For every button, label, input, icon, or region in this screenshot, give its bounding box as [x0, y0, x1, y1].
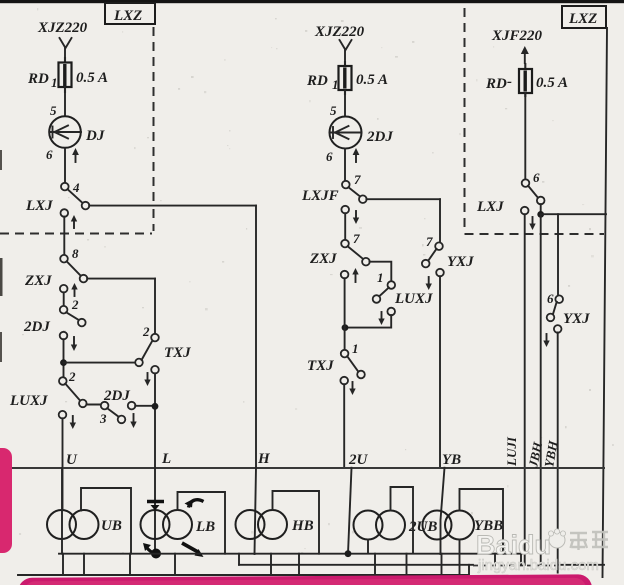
contact TXJ pin 2	[135, 359, 143, 367]
arrow up	[73, 219, 75, 228]
wire 2U column lower	[348, 468, 352, 554]
wire H column lower	[255, 468, 257, 554]
wire LXJF blade to YB branch	[366, 198, 440, 200]
svg-text:LUJI: LUJI	[504, 436, 519, 467]
svg-text:6: 6	[533, 170, 540, 185]
wire ZXJ blade to LUXJ sub-branch	[370, 262, 392, 282]
svg-text:TXJ: TXJ	[164, 345, 191, 361]
annotation arrow (bottom left of LB)	[151, 549, 161, 559]
wire stub	[520, 554, 522, 565]
transformer UB	[47, 510, 76, 539]
svg-text:LUXJ: LUXJ	[9, 393, 48, 409]
wire stub	[174, 554, 176, 575]
arrow down	[352, 382, 354, 390]
fuse RD1 (left) 0.5A	[64, 58, 66, 92]
annotation arrow (bottom right of LB)	[182, 543, 198, 552]
wire YBB secondary loop	[460, 489, 504, 554]
wire	[344, 149, 346, 182]
lower bus line a	[59, 553, 522, 555]
wire stub	[374, 554, 376, 575]
svg-text:RD: RD	[485, 76, 507, 92]
svg-text:2: 2	[71, 297, 79, 312]
arrow up	[355, 152, 357, 162]
node junction	[60, 359, 67, 366]
transformer LB	[141, 510, 170, 539]
fuse RD (right) 0.5A	[524, 64, 526, 96]
arrow down	[355, 211, 357, 219]
svg-text:6: 6	[46, 147, 53, 162]
wire stub	[459, 540, 461, 576]
wire	[344, 50, 346, 66]
wire YB branch down	[439, 199, 441, 243]
lower bus line b	[239, 564, 473, 566]
svg-text:3: 3	[99, 411, 107, 426]
wire YB column lower	[441, 468, 445, 554]
svg-text:ZXJ: ZXJ	[24, 273, 52, 289]
svg-text:XJF220: XJF220	[491, 28, 543, 44]
arrow down	[532, 217, 534, 225]
wire	[63, 339, 65, 377]
wire blade to junction	[540, 204, 542, 211]
wire	[344, 213, 346, 240]
svg-text:HB: HB	[291, 518, 314, 534]
wire LUXJ blade to 2DJ contact	[86, 404, 101, 406]
wire stub	[62, 554, 64, 575]
contact YXJ pin 7 (middle)	[435, 242, 443, 250]
wire	[344, 90, 346, 117]
wire	[63, 292, 65, 306]
arrow V at left feed	[60, 38, 72, 48]
svg-text:1: 1	[332, 77, 339, 92]
node junction (right)	[537, 211, 544, 218]
svg-text:DJ: DJ	[85, 128, 105, 144]
arrow down	[73, 337, 75, 346]
svg-text:2DJ: 2DJ	[23, 319, 50, 335]
node junction on L column	[152, 403, 159, 410]
svg-text:6: 6	[547, 291, 554, 306]
relay coil 2DJ	[330, 117, 362, 149]
svg-text:H: H	[257, 451, 271, 467]
wire 2U column	[343, 384, 345, 467]
svg-text:2: 2	[68, 369, 76, 384]
wire stub	[238, 554, 240, 565]
svg-text:LXJF: LXJF	[301, 188, 339, 204]
wire	[64, 148, 66, 183]
wire H column	[255, 206, 257, 467]
contact LXJ pin 6 (right)	[522, 179, 530, 187]
zone box LXZ (right)	[562, 6, 606, 28]
arrow down	[428, 277, 430, 285]
svg-text:XJZ220: XJZ220	[37, 20, 88, 36]
wire L column upper	[154, 279, 156, 334]
wire	[64, 48, 66, 62]
svg-text:ZXJ: ZXJ	[309, 251, 337, 267]
wire junction to TXJ blade	[64, 362, 136, 364]
contact TXJ pin 1 (middle)	[341, 350, 349, 358]
svg-text:7: 7	[354, 172, 361, 187]
svg-text:U: U	[66, 452, 78, 468]
wire ZXJ blade to L column	[87, 278, 155, 280]
wire U column	[62, 418, 64, 510]
wire right column a	[524, 214, 526, 565]
svg-text:-: -	[507, 74, 512, 90]
arrow down	[381, 312, 383, 320]
zone boundary dashed horizontal (left LXZ)	[0, 233, 152, 235]
wire stub	[270, 554, 272, 575]
wire 2UB bottom	[367, 540, 369, 554]
top border bar	[0, 0, 624, 3]
svg-text:LXZ: LXZ	[113, 8, 142, 24]
node junction lower 2U	[345, 550, 352, 557]
wire YB column	[439, 276, 441, 467]
wire	[344, 278, 346, 350]
svg-text:LXZ: LXZ	[568, 11, 597, 27]
svg-text:7: 7	[353, 231, 360, 246]
svg-text:RD: RD	[27, 71, 49, 87]
svg-text:2: 2	[142, 324, 150, 339]
svg-text:LXJ: LXJ	[25, 198, 53, 214]
wire LXJ to H column	[89, 205, 256, 207]
contact LXJ pin 4	[61, 183, 69, 191]
contact ZXJ pin 8	[60, 255, 68, 263]
arrow down	[546, 334, 548, 342]
svg-text:1: 1	[377, 270, 384, 285]
svg-text:4: 4	[72, 180, 80, 195]
svg-text:YXJ: YXJ	[447, 254, 474, 270]
wire	[63, 217, 65, 255]
contact LUXJ pin 2	[59, 377, 67, 385]
wire to L column	[135, 405, 155, 407]
wire right column b	[540, 214, 542, 565]
wire sub-branch back to main	[345, 315, 391, 328]
svg-text:2DJ: 2DJ	[103, 388, 130, 404]
arrow up at right feed	[524, 52, 526, 63]
wire stub	[83, 554, 85, 575]
arrow up	[75, 152, 77, 162]
lower bus line c	[18, 565, 469, 575]
annotation arrow (top right of LB)	[189, 500, 204, 508]
svg-text:5: 5	[50, 103, 57, 118]
arrow up	[355, 272, 357, 282]
svg-text:6: 6	[326, 149, 333, 164]
annotation arrow (top of LB)	[147, 500, 164, 504]
svg-text:8: 8	[72, 246, 79, 261]
svg-text:0.5 A: 0.5 A	[76, 70, 108, 86]
svg-text:0.5 A: 0.5 A	[356, 72, 388, 88]
zone boundary dashed vertical (right LXZ)	[464, 8, 466, 231]
svg-text:1: 1	[51, 75, 58, 90]
arrow down	[147, 373, 149, 381]
wire stub	[129, 554, 131, 575]
svg-text:2U: 2U	[348, 452, 369, 468]
zone boundary dashed horizontal (right LXZ)	[465, 233, 605, 235]
transformer HB	[236, 510, 265, 539]
wire right column c lower	[557, 333, 559, 573]
svg-text:LXJ: LXJ	[476, 199, 504, 215]
svg-text:jingyan.baidu.com: jingyan.baidu.com	[477, 557, 599, 574]
wire L column lower	[154, 373, 156, 467]
transformer YBB	[423, 511, 452, 540]
svg-text:YB: YB	[442, 452, 461, 468]
contact ZXJ pin 7 (middle)	[341, 240, 349, 248]
arrow V at middle feed	[340, 40, 352, 50]
contact LXJF pin 7	[342, 181, 350, 189]
svg-text:YXJ: YXJ	[563, 311, 590, 327]
node junction	[342, 324, 349, 331]
svg-text:LB: LB	[195, 519, 215, 535]
zone box LXZ (left)	[105, 3, 155, 24]
svg-text:Baidu: Baidu	[476, 530, 551, 560]
relay coil DJ	[49, 116, 81, 148]
wire	[524, 93, 526, 180]
left edge scan marks	[0, 150, 2, 170]
wire junction to frame	[541, 213, 606, 215]
arrow down	[72, 416, 74, 424]
svg-text:UB: UB	[101, 518, 122, 534]
svg-text:LUXJ: LUXJ	[394, 291, 433, 307]
frame right edge	[603, 28, 608, 577]
svg-text:XJZ220: XJZ220	[314, 24, 365, 40]
decorative magenta bottom bar	[18, 574, 592, 585]
svg-text:RD: RD	[306, 73, 328, 89]
contact 2DJ pin 2	[60, 306, 68, 314]
wire	[64, 87, 66, 117]
svg-text:0.5 A: 0.5 A	[536, 75, 568, 91]
svg-text:7: 7	[426, 234, 433, 249]
wire LB secondary loop	[178, 492, 226, 554]
wire stub	[298, 554, 300, 575]
contact YXJ pin 6 (right)	[555, 295, 563, 303]
svg-text:2DJ: 2DJ	[366, 129, 393, 145]
watermark baidu jingyan	[476, 529, 608, 574]
bus line	[12, 467, 605, 469]
contact 2DJ pin 3	[101, 402, 109, 410]
decorative magenta side tab	[0, 448, 12, 553]
svg-text:L: L	[161, 451, 171, 467]
svg-text:TXJ: TXJ	[307, 358, 334, 374]
wire stub	[494, 554, 496, 565]
svg-text:1: 1	[352, 341, 359, 356]
wire L column lower	[154, 468, 156, 554]
zone boundary dashed vertical (left LXZ)	[153, 27, 155, 202]
wire UB secondary loop	[81, 488, 131, 554]
arrow up	[74, 287, 76, 296]
transformer 2UB	[354, 511, 383, 540]
wire stub	[441, 554, 443, 575]
wire HB secondary loop	[273, 491, 320, 554]
wire 2UB secondary loop	[391, 487, 414, 554]
wire stub	[406, 554, 408, 575]
wire UB bottom	[61, 468, 63, 554]
wire right column c upper	[557, 214, 559, 295]
svg-text:5: 5	[330, 103, 337, 118]
fuse RD1 (middle) 0.5A	[344, 62, 346, 94]
arrow down	[133, 414, 135, 423]
